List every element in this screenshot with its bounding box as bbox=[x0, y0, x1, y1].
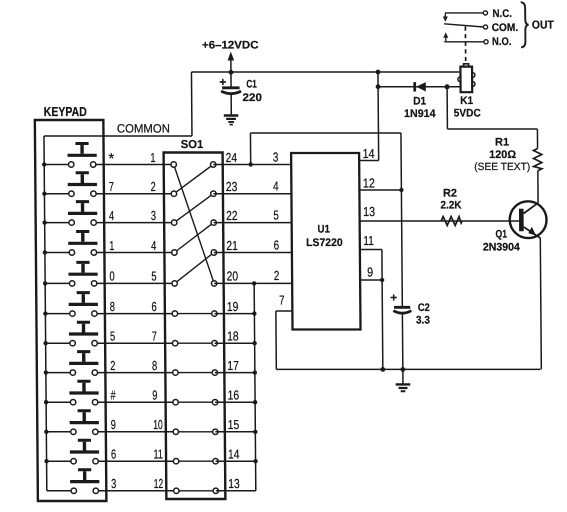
relay contact N.C. bbox=[443, 8, 512, 22]
wire: SO1 pin 19 to bus bbox=[214, 313, 254, 315]
wire: SO1 pin 17 to bus bbox=[215, 372, 255, 374]
svg-text:13: 13 bbox=[363, 204, 375, 219]
wire: SO1 pin 15 to bus bbox=[215, 431, 255, 433]
svg-text:3: 3 bbox=[273, 149, 279, 164]
svg-text:11: 11 bbox=[153, 447, 163, 462]
SO1 jumper wire pin9 to pin16 bbox=[176, 401, 216, 403]
wire: bus to switch S4 and to SO1 pin 3 bbox=[45, 222, 175, 224]
wire: C2 rail from pin12 node down bbox=[401, 190, 402, 369]
connector SO1 bbox=[163, 139, 225, 499]
svg-text:20: 20 bbox=[227, 269, 239, 284]
svg-text:R1: R1 bbox=[495, 136, 509, 148]
svg-text:9: 9 bbox=[152, 388, 157, 403]
wire: U1 pin 11 down to pin 9 bbox=[360, 250, 382, 281]
SO1 jumper wire pin24 to pin2 bbox=[174, 165, 214, 194]
keypad common bus wire bbox=[42, 136, 49, 491]
svg-text:16: 16 bbox=[227, 388, 239, 403]
svg-text:17: 17 bbox=[227, 358, 239, 373]
svg-text:#: # bbox=[110, 388, 116, 403]
node: V+ tap on pin24 wire bbox=[248, 162, 252, 166]
svg-text:COMMON: COMMON bbox=[117, 121, 170, 135]
svg-text:5: 5 bbox=[110, 329, 115, 344]
svg-text:(SEE TEXT): (SEE TEXT) bbox=[474, 161, 530, 173]
svg-text:19: 19 bbox=[227, 299, 239, 314]
svg-text:15: 15 bbox=[228, 417, 240, 432]
svg-text:18: 18 bbox=[227, 329, 239, 344]
svg-text:0: 0 bbox=[109, 269, 114, 284]
wire: U1 pin 7 to ground rail bbox=[276, 311, 293, 369]
svg-text:D1: D1 bbox=[413, 95, 426, 107]
svg-text:1: 1 bbox=[109, 238, 114, 253]
capacitor C2 3.3uF bbox=[390, 291, 430, 327]
wire: COMMON from keypad bus to V+ rail bbox=[44, 135, 192, 137]
svg-text:8: 8 bbox=[110, 299, 115, 314]
svg-text:2: 2 bbox=[110, 358, 115, 373]
svg-text:R2: R2 bbox=[443, 188, 457, 200]
svg-text:12: 12 bbox=[154, 476, 164, 491]
svg-text:120Ω: 120Ω bbox=[489, 149, 516, 161]
svg-text:13: 13 bbox=[228, 476, 240, 491]
wire: U1 pin 9 to ground rail bbox=[360, 278, 385, 370]
svg-text:6: 6 bbox=[274, 237, 280, 252]
svg-text:24: 24 bbox=[226, 150, 238, 165]
diode D1 1N914 bbox=[404, 82, 437, 120]
svg-text:14: 14 bbox=[228, 447, 240, 462]
wire: bus to switch S1 and to SO1 pin 4 bbox=[45, 252, 175, 254]
wire: SO1 pin 16 to bus bbox=[215, 401, 255, 403]
wire: ground rail bbox=[276, 368, 540, 370]
ground (C1) bbox=[224, 114, 239, 125]
wire: bus to switch S9 and to SO1 pin 10 bbox=[46, 431, 176, 433]
svg-text:OUT: OUT bbox=[532, 20, 554, 32]
resistor R1 120 ohm bbox=[474, 136, 542, 173]
svg-text:10: 10 bbox=[153, 417, 163, 432]
pushbutton S1 (1 key) bbox=[68, 230, 97, 255]
wire: V+ rail bbox=[191, 72, 461, 136]
pushbutton S4 (4 key) bbox=[68, 200, 97, 225]
node: pin9/11 riser on ground rail bbox=[380, 367, 385, 372]
SO1 jumper wire pin10 to pin15 bbox=[176, 431, 216, 433]
relay actuation dashed link bbox=[464, 27, 466, 62]
transistor Q1 2N3904 bbox=[482, 201, 546, 253]
svg-text:2: 2 bbox=[151, 179, 156, 194]
node: K1/Q1 collector junction bbox=[445, 84, 450, 89]
wire: bus to switch S0 and to SO1 pin 5 bbox=[45, 282, 175, 284]
wire: V+ feed from pin24 wire to pin12/C2 rail bbox=[250, 133, 401, 190]
svg-text:3: 3 bbox=[111, 476, 116, 491]
node: V+ rail to D1 riser bbox=[376, 70, 381, 90]
pushbutton S3 (3 key) bbox=[70, 468, 99, 493]
wire: SO1 pin 21 to U1 pin 6 bbox=[214, 252, 292, 254]
svg-text:6: 6 bbox=[151, 299, 156, 314]
wire: U1 pin 13 to R2 to Q1 base bbox=[360, 220, 519, 222]
svg-text:+: + bbox=[219, 75, 226, 89]
pushbutton S2 (2 key) bbox=[69, 350, 98, 375]
svg-text:220: 220 bbox=[242, 92, 262, 104]
ground (main) bbox=[396, 369, 411, 392]
svg-text:LS7220: LS7220 bbox=[306, 237, 343, 249]
svg-text:7: 7 bbox=[152, 329, 157, 344]
svg-text:9: 9 bbox=[111, 417, 116, 432]
SO1 jumper wire pin12 to pin13 bbox=[176, 490, 216, 492]
svg-text:Q1: Q1 bbox=[495, 229, 507, 241]
SO1 jumper wire pin6 to pin19 bbox=[175, 313, 215, 315]
OUT brace and label bbox=[521, 2, 554, 47]
svg-text:9: 9 bbox=[367, 265, 373, 280]
relay contact COM (armature) bbox=[444, 22, 518, 34]
relay K1 5VDC coil bbox=[453, 64, 480, 120]
svg-text:5VDC: 5VDC bbox=[454, 108, 481, 120]
resistor R2 2.2K bbox=[440, 188, 462, 226]
wire: SO1 pin 18 to bus bbox=[215, 342, 255, 344]
right-side bus joining SO1 pins 19-13 bbox=[252, 281, 258, 491]
pushbutton S-star (* key) bbox=[67, 142, 96, 167]
svg-text:+: + bbox=[390, 291, 397, 305]
wire: SO1 pin 23 to U1 pin 4 bbox=[213, 193, 291, 195]
svg-text:U1: U1 bbox=[317, 224, 330, 236]
svg-text:7: 7 bbox=[109, 179, 114, 194]
svg-text:3.3: 3.3 bbox=[416, 315, 430, 327]
svg-text:COM.: COM. bbox=[492, 22, 519, 34]
node: C2/ground junction bbox=[400, 367, 405, 372]
supply +6-12VDC arrow bbox=[202, 40, 259, 73]
capacitor C1 220uF bbox=[219, 72, 262, 115]
IC U1 LS7220 bbox=[291, 153, 360, 330]
pushbutton S-pound (# key) bbox=[69, 380, 98, 405]
pushbutton S9 (9 key) bbox=[70, 409, 99, 434]
wire: U1 pin 14 to V+ rail bbox=[358, 72, 378, 161]
svg-text:C2: C2 bbox=[418, 302, 430, 314]
svg-text:N.O.: N.O. bbox=[492, 36, 512, 48]
SO1 jumper wire pin7 to pin18 bbox=[175, 342, 215, 344]
wire: bus to switch S5 and to SO1 pin 7 bbox=[46, 342, 176, 344]
svg-text:N.C.: N.C. bbox=[492, 8, 512, 20]
wire: SO1 pin 14 to bus bbox=[216, 460, 256, 462]
svg-text:11: 11 bbox=[363, 233, 374, 248]
svg-text:3: 3 bbox=[151, 208, 156, 223]
svg-text:4: 4 bbox=[109, 208, 114, 223]
wire: U1 pin 12 to C2 rail bbox=[359, 189, 401, 191]
svg-text:2: 2 bbox=[274, 268, 280, 283]
svg-text:5: 5 bbox=[151, 269, 156, 284]
SO1 jumper wire pin23 to pin3 bbox=[174, 194, 214, 223]
svg-text:12: 12 bbox=[363, 176, 375, 191]
svg-text:21: 21 bbox=[226, 238, 238, 253]
wire: bus to switch S-star and to SO1 pin 1 bbox=[44, 164, 174, 166]
svg-text:23: 23 bbox=[226, 179, 238, 194]
SO1 jumper wire pin21 to pin5 bbox=[174, 253, 214, 284]
svg-text:*: * bbox=[108, 151, 114, 168]
svg-text:4: 4 bbox=[151, 238, 156, 253]
pushbutton S7 (7 key) bbox=[68, 171, 97, 196]
node: pin12 / C2 junction bbox=[399, 188, 403, 192]
SO1 jumper wire pin1 to pin20 bbox=[174, 165, 214, 284]
wire: bus to switch S6 and to SO1 pin 11 bbox=[47, 460, 177, 462]
pushbutton S5 (5 key) bbox=[69, 321, 98, 346]
pushbutton S6 (6 key) bbox=[70, 439, 99, 464]
relay contact N.O. bbox=[443, 32, 511, 48]
wire: Q1 collector to R1 bbox=[537, 171, 539, 203]
wire: bus to switch S8 and to SO1 pin 6 bbox=[45, 313, 175, 315]
svg-text:4: 4 bbox=[273, 179, 279, 194]
SO1 jumper wire pin22 to pin4 bbox=[174, 223, 214, 253]
SO1 jumper wire pin11 to pin14 bbox=[176, 460, 216, 462]
wire: SO1 pin 22 to U1 pin 5 bbox=[214, 222, 292, 224]
keypad enclosure bbox=[35, 104, 107, 501]
svg-text:5: 5 bbox=[273, 207, 279, 222]
svg-text:1: 1 bbox=[150, 150, 155, 165]
svg-text:2N3904: 2N3904 bbox=[483, 241, 521, 253]
svg-text:7: 7 bbox=[279, 293, 285, 308]
wire: bus to switch S7 and to SO1 pin 2 bbox=[44, 193, 174, 195]
svg-text:6: 6 bbox=[111, 447, 116, 462]
pushbutton S0 (0 key) bbox=[68, 261, 97, 286]
wire: D1 branch bbox=[378, 86, 461, 88]
svg-text:SO1: SO1 bbox=[181, 139, 204, 151]
svg-text:8: 8 bbox=[152, 358, 157, 373]
wire: SO1 pin 24 to U1 pin 3 bbox=[213, 164, 291, 166]
svg-text:2.2K: 2.2K bbox=[440, 200, 461, 212]
svg-text:KEYPAD: KEYPAD bbox=[44, 104, 87, 119]
wire: junction down and over to R1 bbox=[447, 87, 537, 149]
svg-text:C1: C1 bbox=[246, 79, 257, 91]
wire: SO1 pin 20 to U1 pin 2 bbox=[214, 282, 292, 284]
node: supply junction bbox=[229, 70, 234, 75]
pushbutton S8 (8 key) bbox=[69, 291, 98, 316]
wire: Q1 emitter to ground rail bbox=[540, 238, 541, 369]
svg-text:K1: K1 bbox=[460, 95, 473, 107]
wire: bus to switch S2 and to SO1 pin 8 bbox=[46, 372, 176, 374]
svg-text:+6–12VDC: +6–12VDC bbox=[202, 40, 259, 52]
SO1 terminal circles bbox=[171, 162, 219, 494]
svg-text:1N914: 1N914 bbox=[404, 108, 436, 120]
SO1 jumper wire pin8 to pin17 bbox=[175, 372, 215, 374]
wire: SO1 pin 13 to bus bbox=[216, 490, 256, 492]
svg-text:22: 22 bbox=[226, 208, 238, 223]
wire: bus to switch S-pound and to SO1 pin 9 bbox=[46, 401, 176, 403]
wire: bus to switch S3 and to SO1 pin 12 bbox=[47, 490, 177, 492]
svg-text:14: 14 bbox=[363, 146, 375, 161]
